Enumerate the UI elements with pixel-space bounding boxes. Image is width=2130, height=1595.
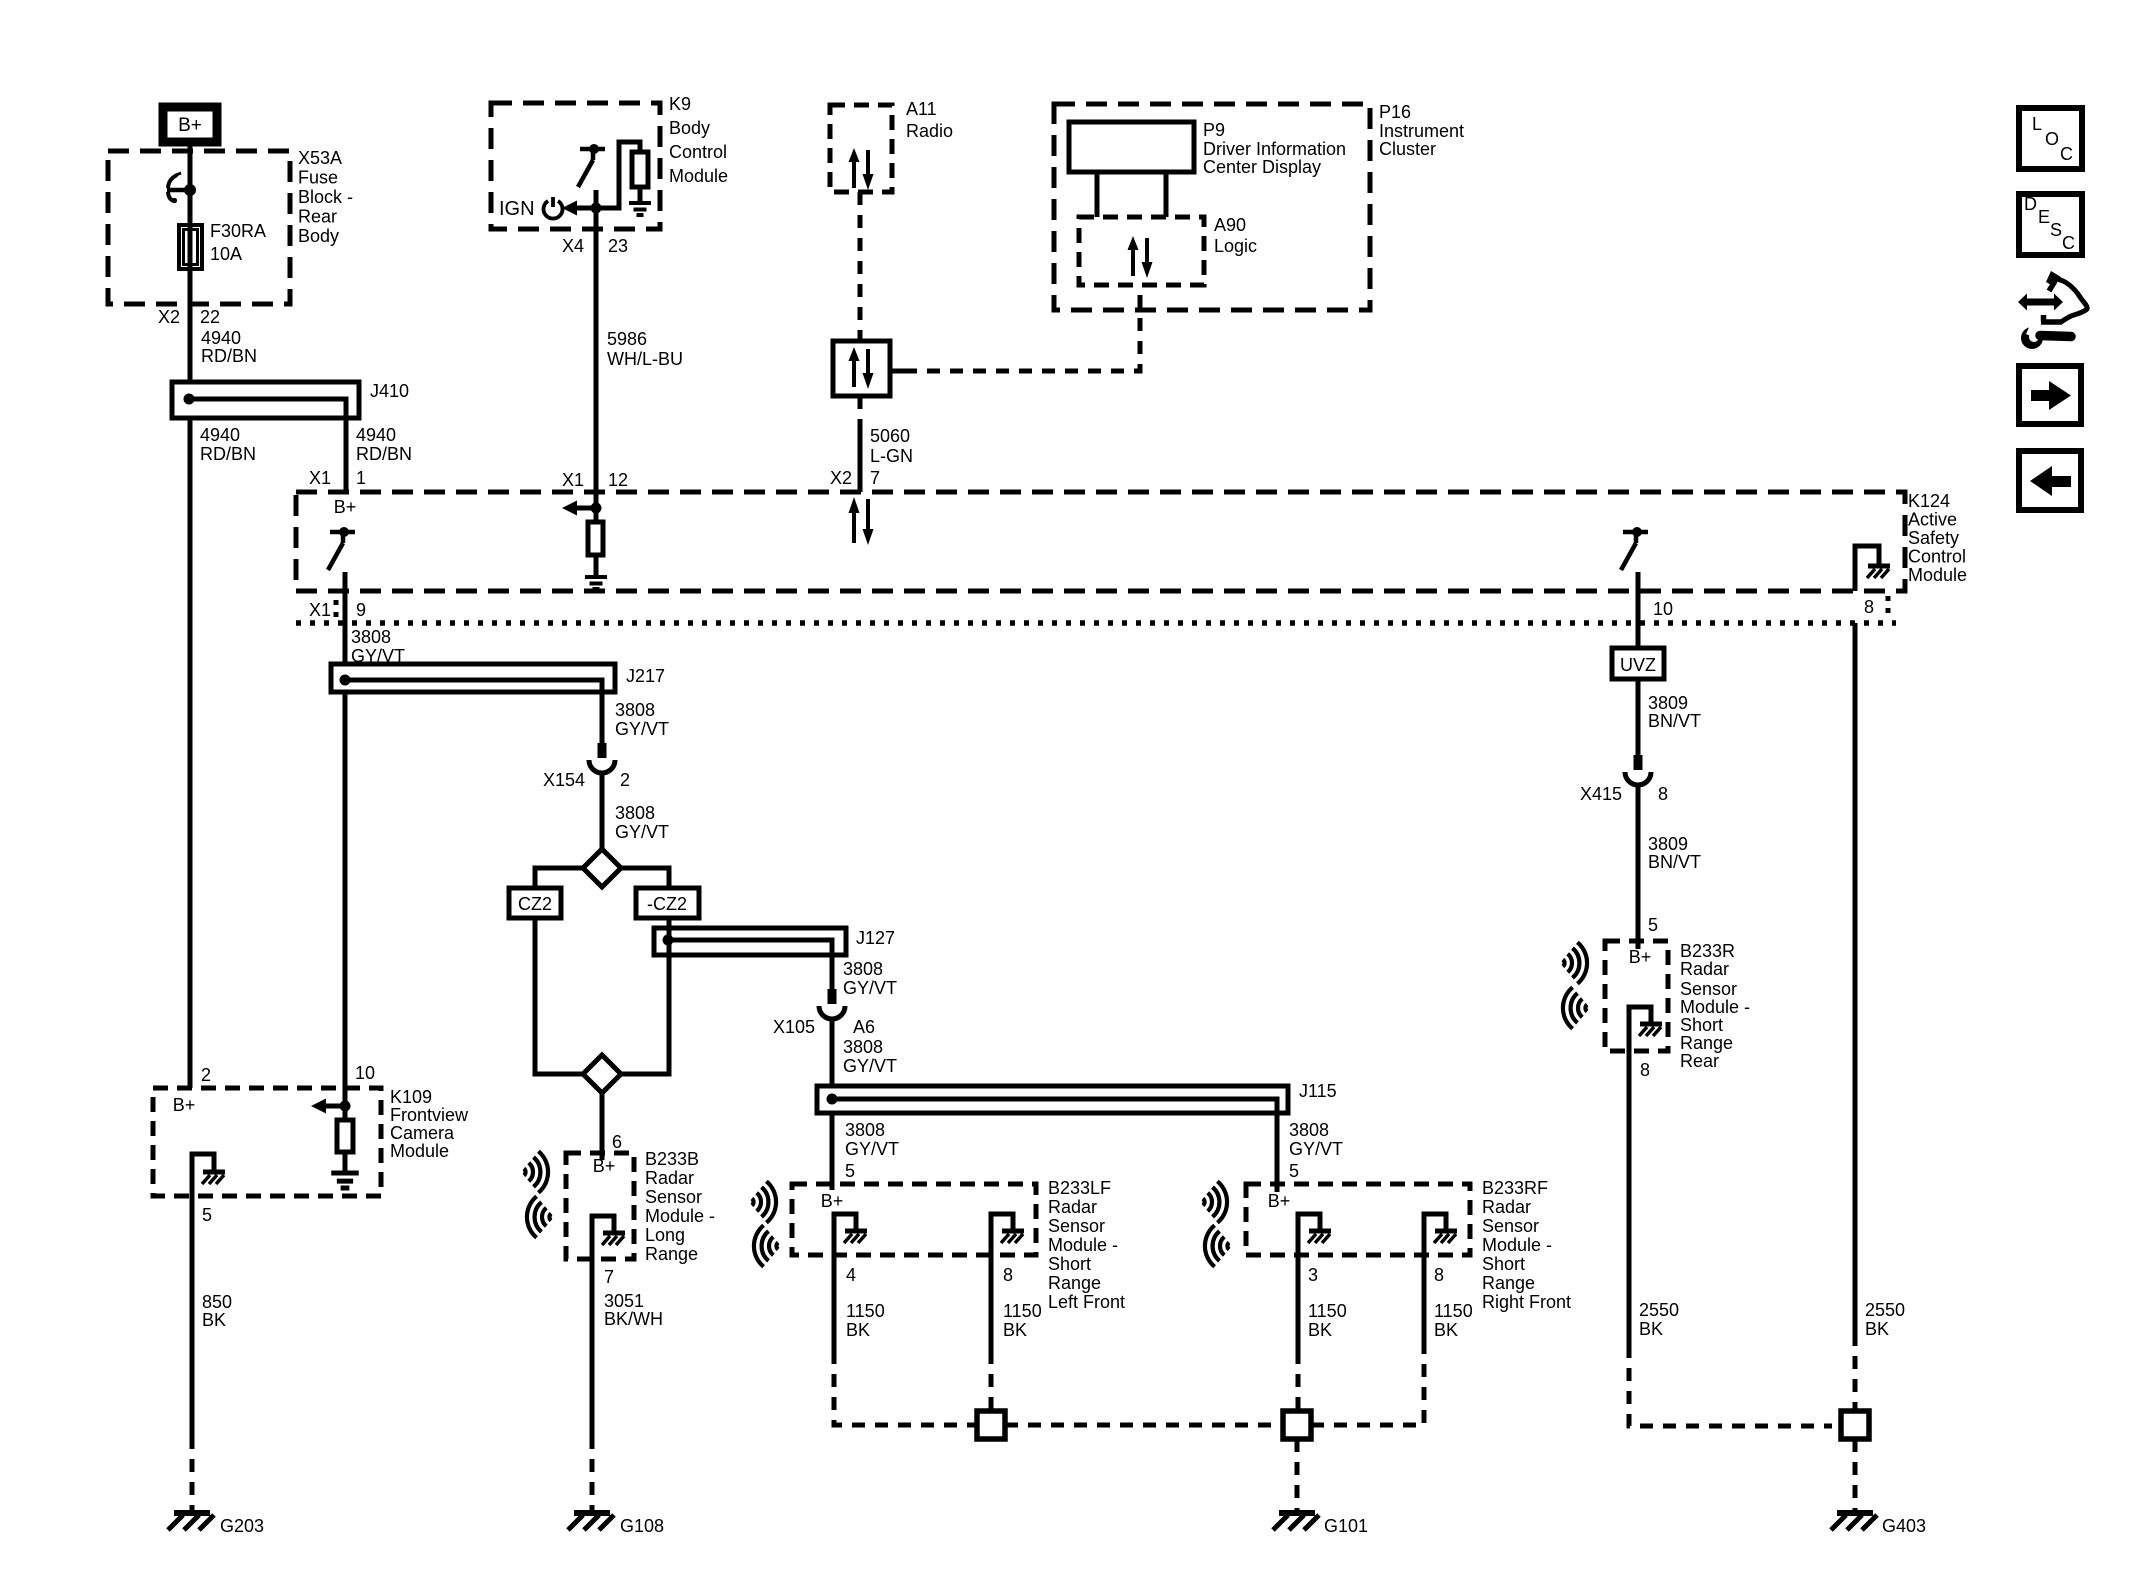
dashed wire into square: [1853, 1333, 1858, 1410]
svg-text:X1: X1: [562, 470, 584, 490]
svg-text:IGN: IGN: [499, 198, 535, 220]
ground loop pin 4: [834, 1214, 856, 1255]
svg-text:Short: Short: [1048, 1254, 1091, 1274]
svg-text:BK: BK: [1865, 1319, 1889, 1339]
svg-text:B233R: B233R: [1680, 941, 1735, 961]
connector X415: [1625, 755, 1651, 785]
dashed wire square to G101: [1295, 1439, 1300, 1511]
svg-text:A6: A6: [853, 1017, 875, 1037]
svg-text:10A: 10A: [210, 244, 242, 264]
svg-text:F30RA: F30RA: [210, 221, 266, 241]
ground loop pin 3: [1298, 1214, 1320, 1255]
svg-text:2550: 2550: [1639, 1300, 1679, 1320]
svg-text:5060: 5060: [870, 426, 910, 446]
svg-text:Sensor: Sensor: [1680, 979, 1737, 999]
wire resistor to earth: [343, 1152, 348, 1173]
svg-text:RD/BN: RD/BN: [201, 346, 257, 366]
svg-text:J217: J217: [626, 666, 665, 686]
wire 1150 BK pin3: [1296, 1255, 1301, 1351]
ground G203: [168, 1513, 214, 1530]
svg-text:Range: Range: [645, 1244, 698, 1264]
dashed wire square to G403: [1853, 1439, 1858, 1511]
svg-text:2550: 2550: [1865, 1300, 1905, 1320]
wire 1150 BK pin4: [832, 1255, 837, 1351]
wire J217 branch to X154: [600, 692, 605, 743]
svg-text:Active: Active: [1908, 510, 1957, 530]
svg-text:BN/VT: BN/VT: [1648, 852, 1701, 872]
icon next arrow box: [2019, 366, 2081, 424]
wire K9 down to K124 pin 12: [594, 229, 599, 492]
svg-text:B233LF: B233LF: [1048, 1178, 1111, 1198]
wire 5060 to K124: [858, 426, 863, 492]
svg-text:BN/VT: BN/VT: [1648, 711, 1701, 731]
svg-text:Radio: Radio: [906, 121, 953, 141]
svg-text:B233B: B233B: [645, 1149, 699, 1169]
dashed bus right to pin8 corner: [1311, 1351, 1424, 1425]
svg-text:GY/VT: GY/VT: [615, 719, 669, 739]
svg-text:2: 2: [201, 1065, 211, 1085]
icon data link connector: [2027, 299, 2054, 306]
wire X154 to upper diamond: [600, 774, 605, 849]
wire J410 branch down to K124 pin 1: [344, 418, 349, 492]
svg-text:L-GN: L-GN: [870, 446, 913, 466]
svg-text:B+: B+: [1268, 1191, 1291, 1211]
svg-text:K124: K124: [1908, 491, 1950, 511]
svg-text:Short: Short: [1680, 1015, 1723, 1035]
wire -CZ2 down through J127 to lower diamond: [621, 918, 669, 1074]
dashed wire pin4 to bus: [834, 1351, 975, 1425]
svg-text:Module -: Module -: [1482, 1235, 1552, 1255]
svg-text:X2: X2: [830, 468, 852, 488]
svg-text:Cluster: Cluster: [1379, 139, 1436, 159]
svg-text:Rear: Rear: [1680, 1051, 1719, 1071]
wires P9 to A90: [1097, 172, 1166, 217]
stub right of gateway: [890, 369, 904, 374]
svg-text:Module -: Module -: [645, 1206, 715, 1226]
resistor inside K9: [632, 152, 648, 187]
svg-text:Rear: Rear: [298, 207, 337, 227]
svg-text:4: 4: [846, 1265, 856, 1285]
switch pin10 inside K124: [1621, 527, 1648, 570]
wire lower diamond to B233B pin 6: [600, 1093, 605, 1160]
svg-text:Block -: Block -: [298, 187, 353, 207]
svg-text:5: 5: [1289, 1161, 1299, 1181]
svg-text:4940: 4940: [201, 328, 241, 348]
svg-text:BK/WH: BK/WH: [604, 1309, 663, 1329]
connector X105: [819, 989, 845, 1019]
svg-text:X154: X154: [543, 770, 585, 790]
svg-text:8: 8: [1003, 1265, 1013, 1285]
dashed bus to square RF3: [1005, 1423, 1280, 1428]
svg-text:850: 850: [202, 1292, 232, 1312]
svg-text:Center Display: Center Display: [1203, 157, 1321, 177]
svg-text:8: 8: [1864, 597, 1874, 617]
wire B+ to fuse: [188, 146, 193, 382]
junction square RF3: [1283, 1411, 1311, 1439]
wire diamond right to -CZ2: [621, 868, 669, 888]
svg-text:7: 7: [604, 1267, 614, 1287]
svg-text:1150: 1150: [846, 1301, 885, 1321]
svg-text:J410: J410: [370, 381, 409, 401]
svg-text:S: S: [2050, 220, 2062, 240]
dashed wire to G108: [590, 1436, 595, 1511]
svg-text:BK: BK: [846, 1320, 870, 1340]
ground G101: [1273, 1513, 1319, 1530]
svg-text:X105: X105: [773, 1017, 815, 1037]
svg-text:Left Front: Left Front: [1048, 1292, 1125, 1312]
wire resistor to earth: [594, 555, 599, 577]
wire X415 to B233R: [1636, 786, 1641, 949]
wire fuse down to J410: [188, 270, 193, 382]
ground earth inside K9: [629, 203, 651, 215]
svg-text:8: 8: [1640, 1060, 1650, 1080]
wire UVZ to X415: [1636, 679, 1641, 755]
dashed wire to G203: [190, 1436, 195, 1511]
svg-text:7: 7: [870, 468, 880, 488]
svg-text:5: 5: [202, 1205, 212, 1225]
svg-text:Logic: Logic: [1214, 236, 1257, 256]
module P16 dashed box: [1054, 104, 1370, 310]
svg-text:B+: B+: [1629, 947, 1652, 967]
svg-text:X53A: X53A: [298, 148, 342, 168]
svg-text:Long: Long: [645, 1225, 685, 1245]
dashed wire pin3 into square: [1296, 1351, 1301, 1410]
svg-text:BK: BK: [1308, 1320, 1332, 1340]
svg-text:RD/BN: RD/BN: [200, 444, 256, 464]
dashed wire gateway to A90: [904, 285, 1140, 371]
wire 1150 BK pin8: [989, 1255, 994, 1351]
switch pin1 inside K124: [328, 527, 355, 570]
resistor pin 12: [588, 522, 603, 555]
svg-text:3809: 3809: [1648, 834, 1688, 854]
dashed serial data wire A11 down: [858, 192, 863, 341]
svg-text:Safety: Safety: [1908, 528, 1959, 548]
ground G403: [1831, 1513, 1877, 1530]
module B233R dashed box: [1605, 941, 1668, 1051]
svg-text:Frontview: Frontview: [390, 1105, 469, 1125]
serial data arrows in A11: [849, 148, 874, 190]
svg-text:3808: 3808: [845, 1120, 885, 1140]
svg-text:Radar: Radar: [645, 1168, 694, 1188]
svg-text:Range: Range: [1482, 1273, 1535, 1293]
branch to resistor and ground: [596, 142, 640, 208]
dashed wire below gateway: [858, 396, 863, 426]
icon wrench: [2021, 327, 2043, 349]
svg-text:RD/BN: RD/BN: [356, 444, 412, 464]
svg-text:A90: A90: [1214, 215, 1246, 235]
svg-text:-CZ2: -CZ2: [647, 894, 687, 914]
svg-text:BK: BK: [202, 1310, 226, 1330]
svg-text:1: 1: [356, 468, 366, 488]
svg-text:C: C: [2060, 144, 2073, 164]
svg-text:B+: B+: [173, 1095, 196, 1115]
icon back arrow box: [2019, 451, 2081, 510]
lower diamond node: [583, 1055, 621, 1093]
logic A90 dashed box: [1079, 217, 1204, 285]
svg-text:Module -: Module -: [1680, 997, 1750, 1017]
svg-text:4940: 4940: [356, 425, 396, 445]
svg-text:G203: G203: [220, 1516, 264, 1536]
svg-text:G108: G108: [620, 1516, 664, 1536]
fuse block X53A dashed box: [108, 151, 290, 304]
svg-text:C: C: [2062, 233, 2075, 253]
IGN arrow: [562, 201, 602, 216]
svg-text:X1: X1: [309, 468, 331, 488]
module B233RF dashed box: [1246, 1184, 1470, 1255]
svg-text:X2: X2: [158, 307, 180, 327]
radar waves lower: [754, 1225, 778, 1266]
svg-text:X1: X1: [309, 600, 331, 620]
wire switch to pin: [594, 190, 599, 229]
svg-text:3051: 3051: [604, 1291, 644, 1311]
svg-text:Instrument: Instrument: [1379, 121, 1464, 141]
svg-text:8: 8: [1434, 1265, 1444, 1285]
svg-text:L: L: [2032, 114, 2042, 134]
radar waves upper: [524, 1151, 548, 1192]
svg-text:X4: X4: [562, 236, 584, 256]
svg-text:3808: 3808: [351, 627, 391, 647]
svg-text:Body: Body: [669, 118, 710, 138]
junction square G403: [1841, 1411, 1869, 1439]
svg-text:5986: 5986: [607, 329, 647, 349]
svg-text:CZ2: CZ2: [518, 894, 552, 914]
svg-text:6: 6: [612, 1132, 622, 1152]
svg-text:J127: J127: [856, 928, 895, 948]
switch inside K9: [578, 144, 605, 187]
svg-text:K109: K109: [390, 1087, 432, 1107]
svg-text:Control: Control: [1908, 547, 1966, 567]
connector row dotted line: [296, 620, 1896, 626]
ground earth in K109: [331, 1173, 359, 1188]
svg-text:GY/VT: GY/VT: [843, 1056, 897, 1076]
wire 850 BK down: [190, 1196, 195, 1436]
svg-text:B+: B+: [821, 1191, 844, 1211]
ground loop pin 8 inside K124: [1855, 546, 1879, 591]
display P9 box: [1069, 122, 1194, 172]
ground loop pin 8: [1424, 1214, 1446, 1255]
svg-text:Module -: Module -: [1048, 1235, 1118, 1255]
wire 3051 BK/WH: [590, 1259, 595, 1436]
svg-text:GY/VT: GY/VT: [843, 978, 897, 998]
arrow at pin 12: [594, 492, 599, 522]
svg-text:P9: P9: [1203, 120, 1225, 140]
svg-text:3808: 3808: [1289, 1120, 1329, 1140]
svg-text:G403: G403: [1882, 1516, 1926, 1536]
splice J217: [331, 664, 615, 692]
svg-text:12: 12: [608, 470, 628, 490]
serial data arrows pin 7: [849, 497, 874, 545]
junction square LF8: [977, 1411, 1005, 1439]
svg-text:P16: P16: [1379, 102, 1411, 122]
svg-text:10: 10: [355, 1063, 375, 1083]
ground loop pin 8: [991, 1214, 1013, 1255]
svg-text:Radar: Radar: [1048, 1197, 1097, 1217]
wire resistor to ground: [638, 187, 643, 203]
wire left of J217 down to K109 pin 10: [343, 692, 348, 1088]
wire 2550 BK left: [1627, 1051, 1632, 1345]
svg-text:3808: 3808: [615, 700, 655, 720]
net -CZ2 box: [636, 888, 699, 918]
wire X105 to J115: [830, 1019, 835, 1086]
svg-text:B+: B+: [178, 115, 202, 136]
ground earth pin 12: [585, 577, 607, 589]
svg-text:B+: B+: [593, 1156, 616, 1176]
svg-text:J115: J115: [1299, 1081, 1337, 1101]
wire J115 left branch to B233LF: [830, 1113, 835, 1190]
svg-text:Module: Module: [669, 166, 728, 186]
module K109 dashed box: [153, 1088, 381, 1196]
connector X154: [589, 743, 615, 773]
wire switch to pin 9: [343, 572, 348, 664]
svg-text:5: 5: [845, 1161, 855, 1181]
serial data gateway box: [833, 341, 890, 396]
svg-text:Range: Range: [1048, 1273, 1101, 1293]
svg-text:GY/VT: GY/VT: [845, 1139, 899, 1159]
radar waves upper: [1563, 942, 1587, 983]
svg-text:9: 9: [356, 600, 366, 620]
svg-text:K9: K9: [669, 94, 691, 114]
wire left below J410: [188, 418, 193, 1088]
svg-text:B233RF: B233RF: [1482, 1178, 1548, 1198]
module K124 dashed box: [296, 492, 1905, 591]
svg-text:BK: BK: [1434, 1320, 1458, 1340]
svg-text:Body: Body: [298, 226, 339, 246]
svg-text:1150: 1150: [1434, 1301, 1473, 1321]
svg-text:8: 8: [1658, 784, 1668, 804]
svg-text:Range: Range: [1680, 1033, 1733, 1053]
radar waves upper: [1203, 1181, 1227, 1222]
arrow pin 10: [343, 1088, 348, 1120]
svg-text:Sensor: Sensor: [645, 1187, 702, 1207]
wire 1150 BK pin8: [1422, 1255, 1427, 1351]
resistor in K109: [337, 1120, 353, 1152]
radar waves lower: [1563, 987, 1587, 1028]
svg-text:Sensor: Sensor: [1482, 1216, 1539, 1236]
svg-text:E: E: [2038, 207, 2050, 227]
svg-text:22: 22: [200, 307, 220, 327]
svg-text:O: O: [2045, 129, 2059, 149]
svg-text:BK: BK: [1639, 1319, 1663, 1339]
serial data arrows in A90: [1128, 236, 1153, 278]
wire switch pin10 down: [1636, 572, 1641, 648]
svg-text:3809: 3809: [1648, 693, 1688, 713]
svg-text:2: 2: [620, 770, 630, 790]
icon DESC box: [2019, 194, 2082, 255]
splice J410: [172, 382, 359, 418]
svg-text:Module: Module: [390, 1141, 449, 1161]
svg-text:B+: B+: [334, 497, 357, 517]
svg-text:Sensor: Sensor: [1048, 1216, 1105, 1236]
svg-text:Control: Control: [669, 142, 727, 162]
svg-text:WH/L-BU: WH/L-BU: [607, 349, 683, 369]
svg-text:3808: 3808: [843, 959, 883, 979]
svg-text:23: 23: [608, 236, 628, 256]
module B233LF dashed box: [792, 1184, 1036, 1255]
svg-text:GY/VT: GY/VT: [1289, 1139, 1343, 1159]
svg-text:Camera: Camera: [390, 1123, 455, 1143]
svg-text:Module: Module: [1908, 565, 1967, 585]
splice J115: [817, 1086, 1288, 1113]
ground loop pin 5 in K109: [192, 1154, 214, 1196]
fuse holder clip: [168, 175, 177, 188]
battery B+ symbol box: [163, 107, 217, 142]
radar waves upper: [752, 1181, 776, 1222]
svg-text:D: D: [2024, 194, 2037, 214]
dashed wire pin8 into square: [989, 1351, 994, 1410]
svg-text:10: 10: [1653, 599, 1673, 619]
svg-text:4940: 4940: [200, 425, 240, 445]
svg-text:Radar: Radar: [1680, 959, 1729, 979]
ground loop pin 7: [592, 1216, 614, 1259]
svg-text:3808: 3808: [843, 1037, 883, 1057]
svg-text:5: 5: [1648, 915, 1658, 935]
upper diamond node: [583, 849, 621, 887]
wire diamond left to CZ2: [535, 868, 583, 888]
icon LOC box: [2019, 108, 2082, 169]
radar waves lower: [527, 1196, 551, 1237]
svg-text:UVZ: UVZ: [1620, 655, 1656, 675]
svg-text:BK: BK: [1003, 1320, 1027, 1340]
dashed wire to G403 bus: [1629, 1345, 1832, 1426]
radar waves lower: [1205, 1225, 1229, 1266]
net UVZ box: [1612, 648, 1664, 679]
wire J127 to X105: [830, 955, 835, 989]
module A11 radio dashed box: [830, 105, 892, 192]
svg-text:Fuse: Fuse: [298, 168, 338, 188]
power icon: [544, 201, 563, 219]
svg-text:Driver Information: Driver Information: [1203, 139, 1346, 159]
svg-text:GY/VT: GY/VT: [615, 822, 669, 842]
svg-text:G101: G101: [1324, 1516, 1368, 1536]
svg-text:Radar: Radar: [1482, 1197, 1531, 1217]
ground G108: [568, 1513, 614, 1530]
svg-text:A11: A11: [906, 99, 937, 119]
wire K124 pin8 down: [1853, 623, 1858, 1333]
svg-text:3808: 3808: [615, 803, 655, 823]
module B233B dashed box: [566, 1153, 634, 1259]
svg-text:X415: X415: [1580, 784, 1622, 804]
wire J115 right branch to B233RF: [1275, 1113, 1280, 1192]
fuse F30RA: [179, 225, 202, 269]
net CZ2 box: [509, 888, 561, 918]
ground loop pin 8: [1629, 1007, 1651, 1051]
svg-text:1150: 1150: [1308, 1301, 1347, 1321]
svg-text:Right Front: Right Front: [1482, 1292, 1571, 1312]
wire CZ2 down to lower diamond: [535, 918, 583, 1074]
splice J127: [654, 928, 846, 955]
svg-text:1150: 1150: [1003, 1301, 1042, 1321]
svg-text:Short: Short: [1482, 1254, 1525, 1274]
svg-text:3: 3: [1308, 1265, 1318, 1285]
module K9 dashed box: [491, 103, 660, 229]
